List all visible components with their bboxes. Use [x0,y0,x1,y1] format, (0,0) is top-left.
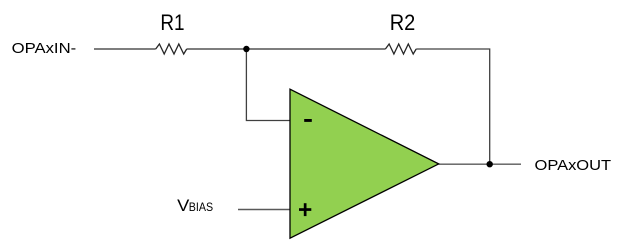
svg-text:OPAxIN-: OPAxIN- [12,41,77,57]
wire: feedback from node down and right into inverting input [246,49,289,121]
wire: R2 to top-right corner then down to output node [416,49,490,164]
resistor R2 [385,44,416,54]
svg-text:BIAS: BIAS [189,200,213,214]
op-amp non-inverting input plus sign [299,208,311,211]
node: feedback junction dot [243,46,249,52]
resistor R1 [156,44,187,54]
wire: VBIAS lead into non-inverting input [238,209,290,211]
wire: R1 to feedback node to R2 [187,48,386,50]
node: output junction dot [487,161,493,167]
svg-text:R1: R1 [160,10,184,35]
svg-text:OPAxOUT: OPAxOUT [535,158,612,174]
wire: input lead from OPAxIN- to R1 [94,48,156,50]
op-amp inverting input minus sign [304,119,312,122]
svg-text:V: V [177,197,189,215]
wire: output lead from op-amp apex to OPAxOUT [439,163,521,165]
svg-text:R2: R2 [390,10,416,35]
op-amp U1 triangle [290,89,439,238]
